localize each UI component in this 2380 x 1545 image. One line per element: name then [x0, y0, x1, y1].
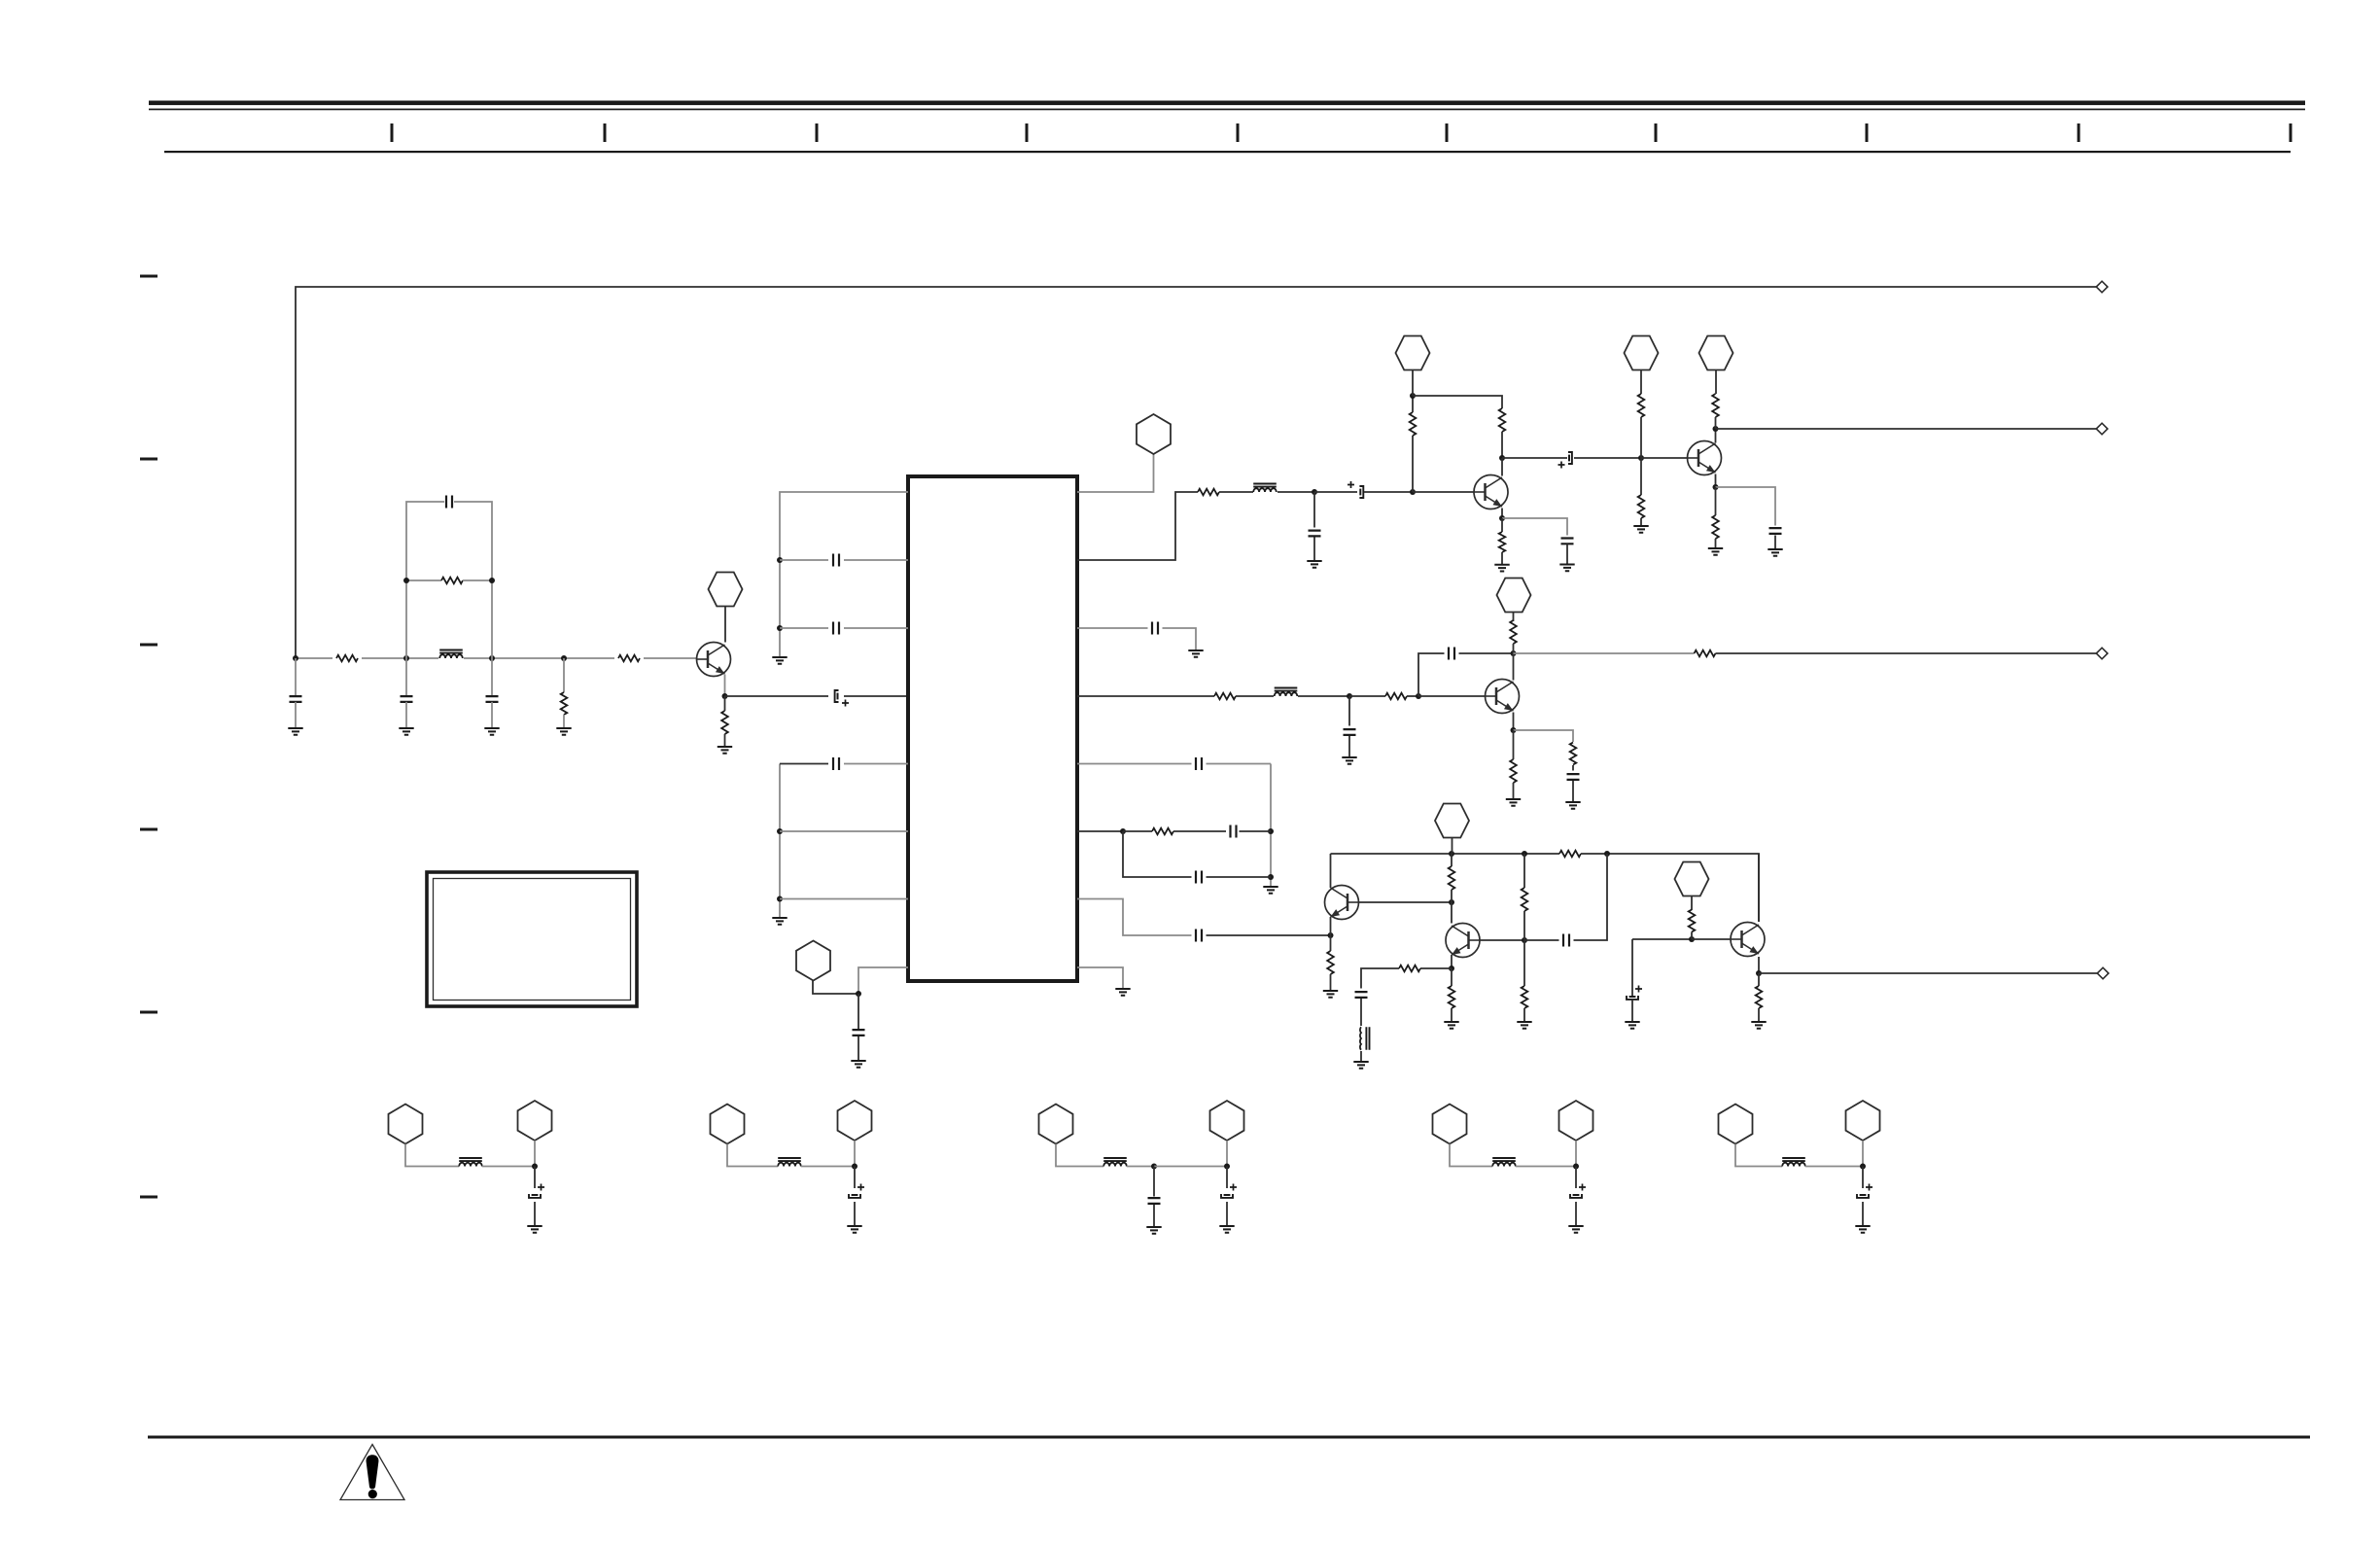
- junction: [293, 655, 298, 661]
- connector CN9: [1675, 862, 1709, 896]
- junction: [1449, 966, 1454, 971]
- capacitor C16: [1344, 729, 1356, 735]
- wire: [1480, 939, 1524, 941]
- junction: [1268, 828, 1274, 834]
- wire: [1330, 917, 1332, 935]
- wire: [295, 658, 297, 696]
- footer rule: [148, 1436, 2310, 1439]
- wire: [1313, 538, 1315, 562]
- wire: [1348, 736, 1350, 757]
- ferrite bead FB1: [439, 654, 463, 658]
- resistor R29: [1756, 986, 1763, 1008]
- capacitor C6: [833, 554, 839, 567]
- wire: [1240, 830, 1272, 832]
- resistor R15: [1385, 693, 1407, 700]
- wire: [296, 657, 332, 659]
- wire: [1359, 901, 1452, 903]
- wire: [405, 702, 407, 728]
- wire: [1077, 627, 1148, 629]
- off-page connector P2: [2096, 423, 2108, 435]
- ground: [484, 728, 499, 735]
- junction: [1511, 650, 1517, 656]
- ground: [1307, 561, 1321, 568]
- wire: [1523, 854, 1525, 888]
- wire: [844, 695, 908, 697]
- wire: [1566, 544, 1568, 564]
- capacitor C1: [446, 496, 452, 509]
- resistor R1: [336, 655, 358, 662]
- wire: [1758, 957, 1760, 973]
- header underline: [164, 151, 2291, 153]
- resistor R19: [1510, 759, 1517, 783]
- junction: [1522, 851, 1527, 857]
- junction: [777, 828, 783, 834]
- wire: [563, 658, 565, 692]
- wire: [1361, 968, 1399, 989]
- wire: [857, 1036, 859, 1061]
- junction: [856, 991, 861, 997]
- capacitor (polarized): [852, 1194, 858, 1196]
- junction: [1756, 970, 1762, 976]
- capacitor (polarized): [1860, 1194, 1867, 1196]
- wire: [1153, 1167, 1155, 1197]
- wire: [1412, 396, 1414, 412]
- wire: [813, 980, 858, 994]
- wire: [1314, 491, 1357, 493]
- wire: [1513, 783, 1515, 799]
- capacitor C13: [1561, 539, 1574, 544]
- capacitor C20: [1231, 825, 1237, 838]
- ground: [1751, 1022, 1766, 1029]
- ground: [1517, 1022, 1531, 1029]
- row marker dash 1: [140, 275, 157, 278]
- off-page connector P3: [2096, 648, 2108, 659]
- connector CN14b: [1846, 1101, 1880, 1141]
- row marker dash 4: [140, 828, 157, 831]
- connector CN7: [1497, 579, 1531, 613]
- wire: [1758, 854, 1760, 922]
- wire: [1523, 1008, 1525, 1022]
- wire: [1153, 1205, 1155, 1227]
- column tick 5: [1237, 123, 1240, 142]
- row marker dash 5: [140, 1011, 157, 1014]
- column tick 1: [391, 123, 394, 142]
- ground: [1219, 1226, 1234, 1233]
- connector CN4: [1396, 336, 1430, 370]
- wire: [1632, 938, 1692, 940]
- wire: [534, 1167, 536, 1189]
- wire pin5 rail: [779, 764, 781, 919]
- ground: [1565, 802, 1580, 809]
- wire: [1226, 1141, 1228, 1167]
- junction: [403, 578, 409, 583]
- resistor R12: [1712, 394, 1719, 417]
- note box inner: [434, 879, 631, 1001]
- resistor R8: [1499, 408, 1506, 432]
- resistor R6: [1198, 489, 1219, 496]
- wire: [1418, 695, 1486, 697]
- wire: [1862, 1202, 1864, 1226]
- junction: [1410, 489, 1416, 495]
- resistor R18: [1570, 743, 1577, 765]
- wire: [1451, 890, 1452, 902]
- capacitor C9: [853, 1030, 865, 1036]
- capacitor C17: [1449, 648, 1454, 660]
- warning triangle: [340, 1445, 404, 1500]
- ground: [556, 728, 571, 735]
- wire: [1575, 1167, 1577, 1189]
- ground: [1506, 799, 1521, 806]
- wire: [1451, 968, 1452, 986]
- wire: [1502, 518, 1567, 536]
- wire: [534, 1141, 536, 1167]
- wire: [1805, 1166, 1863, 1168]
- wire: [1758, 1008, 1760, 1022]
- connector CN13b: [1559, 1101, 1593, 1141]
- wire: [1450, 1144, 1492, 1167]
- wire: [1173, 830, 1226, 832]
- wire: [1774, 536, 1776, 550]
- ground: [772, 657, 787, 664]
- wire: [1077, 830, 1123, 832]
- ferrite bead FB4: [1360, 1027, 1361, 1050]
- wire: [780, 898, 908, 900]
- wire: [1451, 955, 1452, 968]
- junction: [1713, 484, 1719, 490]
- junction: [722, 693, 728, 699]
- wire: [1330, 935, 1332, 951]
- capacitor C14: [1769, 528, 1782, 534]
- transistor Q2: [1474, 475, 1508, 509]
- wire: [1502, 457, 1567, 459]
- wire: [1349, 695, 1385, 697]
- capacitor C5: [837, 693, 839, 700]
- junction: [1328, 932, 1334, 938]
- wire: [1207, 934, 1331, 936]
- wire: [1056, 1144, 1103, 1167]
- resistor R7: [1410, 412, 1417, 436]
- connector CN10b: [518, 1101, 552, 1141]
- column tick 2: [604, 123, 607, 142]
- ground: [1263, 887, 1277, 894]
- wire: [801, 1166, 855, 1168]
- ferrite bead FB13: [1492, 1163, 1516, 1167]
- junction: [1713, 426, 1719, 432]
- wire: [295, 702, 297, 728]
- ground: [1559, 565, 1574, 572]
- junction: [561, 655, 567, 661]
- IC U1: [908, 476, 1077, 981]
- wire: [1716, 487, 1776, 526]
- wire rc-block right rail: [454, 502, 492, 658]
- wire: [406, 579, 441, 581]
- ferrite bead FB2: [1253, 488, 1277, 492]
- column tick 6: [1446, 123, 1449, 142]
- junction: [489, 655, 495, 661]
- junction: [489, 578, 495, 583]
- capacitor C21: [1196, 871, 1202, 884]
- wire: [1513, 713, 1515, 731]
- connector CN3: [1137, 414, 1171, 454]
- wire: [1516, 1166, 1576, 1168]
- wire: [491, 658, 493, 696]
- junction: [1499, 515, 1505, 521]
- wire: [1514, 730, 1574, 742]
- wire: [1523, 940, 1525, 986]
- note box outer: [427, 872, 637, 1006]
- connector CN14a: [1719, 1105, 1753, 1144]
- ground: [772, 918, 787, 925]
- wire: [1226, 1202, 1228, 1226]
- capacitor C8: [833, 757, 839, 770]
- wire: [1631, 1000, 1633, 1022]
- wire: [1631, 939, 1633, 997]
- wire: [1219, 491, 1253, 493]
- junction: [1416, 693, 1421, 699]
- wire: [854, 1202, 856, 1226]
- capacitor C24: [1355, 992, 1368, 998]
- wire: [1759, 972, 2097, 974]
- wire: [1574, 457, 1641, 459]
- wire: [1572, 781, 1574, 802]
- ground: [527, 1226, 542, 1233]
- wire: [1575, 1202, 1577, 1226]
- connector CN1: [709, 573, 743, 607]
- wire: [780, 559, 828, 561]
- wire: [1640, 417, 1642, 458]
- wire: [1715, 474, 1717, 488]
- resistor R24: [1522, 888, 1528, 911]
- wire: [1413, 396, 1502, 408]
- column tick 10: [2290, 123, 2292, 142]
- wire rc-block left rail: [406, 502, 444, 658]
- capacitor (polarized): [1573, 1194, 1580, 1196]
- resistor R5: [721, 711, 728, 734]
- wire: [1163, 628, 1197, 650]
- ground: [1188, 650, 1203, 657]
- row marker dash 2: [140, 458, 157, 461]
- connector CN6: [1699, 336, 1733, 370]
- ground: [1494, 565, 1509, 572]
- resistor R11: [1499, 532, 1506, 552]
- junction: [1151, 1164, 1157, 1170]
- wire: [1735, 1144, 1782, 1167]
- wire: [1330, 854, 1332, 888]
- resistor R21: [1327, 951, 1334, 974]
- resistor R28: [1689, 910, 1696, 932]
- capacitor C19: [1196, 757, 1202, 770]
- connector CN8: [1435, 804, 1469, 838]
- wire: [1572, 765, 1574, 771]
- off-page connector P4: [2097, 967, 2109, 979]
- ground: [1146, 1227, 1161, 1234]
- junction: [1449, 851, 1454, 857]
- wire: [1412, 370, 1414, 397]
- wire: [1077, 763, 1192, 765]
- border top thin rule: [149, 109, 2305, 111]
- wire: [858, 967, 908, 994]
- junction: [1638, 455, 1644, 461]
- wire: [1077, 492, 1198, 560]
- wire: [1715, 429, 1717, 443]
- wire: [1207, 763, 1272, 765]
- wire: [1641, 457, 1688, 459]
- ground: [847, 1226, 861, 1233]
- resistor R20: [1152, 828, 1173, 835]
- wire: [1640, 518, 1642, 526]
- wire: [1691, 896, 1693, 911]
- capacitor (polarized): [1224, 1194, 1231, 1196]
- junction: [1511, 727, 1517, 733]
- junction: [1860, 1164, 1866, 1170]
- wire: [1154, 1166, 1227, 1168]
- wire: [1513, 644, 1515, 653]
- wire top bus: [296, 287, 2096, 658]
- wire: [1715, 487, 1717, 515]
- wire: [362, 657, 438, 659]
- border top thick rule: [149, 101, 2305, 106]
- wire: [780, 830, 908, 832]
- wire: [1514, 652, 1695, 654]
- wire: [482, 1166, 535, 1168]
- resistor R14: [1214, 693, 1236, 700]
- ground: [1625, 1022, 1639, 1029]
- capacitor C25: [1629, 996, 1636, 998]
- column tick 9: [2078, 123, 2081, 142]
- junction: [852, 1164, 857, 1170]
- resistor R3: [441, 578, 463, 584]
- wire: [534, 1202, 536, 1226]
- resistor R22: [1559, 851, 1581, 858]
- capacitor C3: [401, 696, 413, 702]
- junction: [1604, 851, 1610, 857]
- resistor R26: [1449, 986, 1455, 1008]
- wire: [854, 1141, 856, 1167]
- junction: [1573, 1164, 1579, 1170]
- resistor R27: [1399, 966, 1420, 972]
- wire: [1862, 1141, 1864, 1167]
- wire: [1360, 1051, 1362, 1062]
- wire: [1513, 653, 1515, 681]
- wire: [1226, 1167, 1228, 1189]
- capacitor C22: [1196, 930, 1202, 942]
- column tick 3: [816, 123, 819, 142]
- transistor Q6: [1446, 924, 1480, 958]
- column tick 4: [1026, 123, 1029, 142]
- ground: [1633, 526, 1648, 533]
- transistor Q7: [1731, 923, 1765, 957]
- junction: [1347, 693, 1352, 699]
- ferrite bead FB10: [459, 1163, 482, 1167]
- wire: [1524, 939, 1559, 941]
- connector CN5: [1625, 336, 1659, 370]
- wire: [1236, 695, 1274, 697]
- wire: [1574, 854, 1608, 940]
- junction: [777, 625, 783, 631]
- wire: [780, 627, 828, 629]
- resistor R10: [1638, 495, 1645, 518]
- wire: [1077, 454, 1154, 492]
- column tick 7: [1655, 123, 1658, 142]
- transistor Q5: [1325, 886, 1359, 920]
- wire: [1575, 1141, 1577, 1167]
- capacitor C15: [1152, 622, 1158, 635]
- wire: [725, 695, 829, 697]
- junction: [1499, 455, 1505, 461]
- wire: [1452, 838, 1453, 855]
- resistor R13: [1712, 515, 1719, 539]
- junction: [1410, 393, 1416, 399]
- wire: [405, 658, 407, 696]
- capacitor C12: [1568, 455, 1570, 462]
- ground: [1115, 989, 1130, 996]
- connector CN10a: [389, 1105, 423, 1144]
- resistor R25: [1522, 986, 1528, 1008]
- wire: [1077, 967, 1123, 989]
- wire: [491, 702, 493, 728]
- row marker dash 3: [140, 644, 157, 647]
- wire: [1640, 458, 1642, 495]
- wire: [1077, 899, 1192, 936]
- wire: [1412, 436, 1414, 492]
- wire: [857, 994, 859, 1029]
- wire: [1364, 491, 1413, 493]
- junction: [1312, 489, 1317, 495]
- ferrite bead FB12: [1103, 1163, 1127, 1167]
- junction: [1120, 828, 1126, 834]
- capacitor C10 (polarized): [1359, 489, 1361, 496]
- ground: [1568, 1226, 1583, 1233]
- ground: [399, 728, 413, 735]
- wire: [563, 715, 565, 728]
- wire: [1513, 613, 1515, 622]
- wire: [1451, 854, 1452, 866]
- connector CN13a: [1433, 1105, 1467, 1144]
- wire: [1501, 509, 1503, 519]
- wire: [405, 1144, 459, 1167]
- resistor R17: [1695, 650, 1716, 657]
- column tick 8: [1866, 123, 1869, 142]
- wire: [1451, 1008, 1452, 1022]
- wire: [1716, 428, 2097, 430]
- wire: [463, 579, 492, 581]
- capacitor C4: [486, 696, 499, 702]
- wire: [844, 627, 908, 629]
- wire: [1407, 695, 1418, 697]
- ferrite bead FB11: [778, 1163, 801, 1167]
- junction: [1224, 1164, 1230, 1170]
- wire: [724, 675, 726, 697]
- wire: [1501, 458, 1503, 476]
- connector CN11b: [838, 1101, 872, 1141]
- wire pin1 rail: [780, 492, 908, 657]
- wire: [727, 1144, 778, 1167]
- transistor Q1: [697, 643, 731, 677]
- ground: [1323, 991, 1338, 998]
- ferrite bead FB3: [1275, 692, 1298, 696]
- wire: [1523, 911, 1525, 940]
- wire: [464, 657, 614, 659]
- wire: [1418, 653, 1445, 696]
- wire: [644, 657, 697, 659]
- ground: [1353, 1062, 1368, 1069]
- wire: [1715, 370, 1717, 395]
- ground: [717, 747, 732, 754]
- wire: [1862, 1167, 1864, 1189]
- connector CN12a: [1039, 1105, 1073, 1144]
- junction: [1268, 874, 1274, 880]
- wire: [844, 559, 908, 561]
